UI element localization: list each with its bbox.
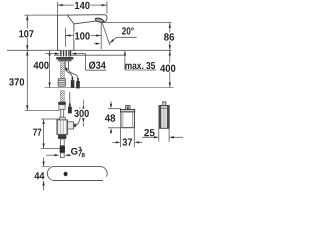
- dimension 44: [43, 158, 45, 167]
- box2 body: [159, 106, 169, 129]
- dimension 370: [26, 50, 28, 110]
- valve cable: [76, 107, 80, 125]
- plug 2: [77, 78, 79, 81]
- tailpiece pipe: [60, 139, 64, 146]
- box1 body: [121, 112, 134, 128]
- valve adapter body: [59, 105, 65, 110]
- cable gland: [74, 124, 77, 127]
- deck bottom line: [54, 54, 125, 56]
- extension line hose end: [45, 87, 175, 89]
- dimension 107: [24, 15, 57, 50]
- plug 1: [72, 77, 74, 80]
- valve body: [57, 120, 68, 134]
- dimension 400 left: [49, 50, 51, 87]
- valve cable plug: [69, 92, 71, 103]
- box2 knob: [163, 102, 166, 106]
- valve stem: [61, 109, 64, 117]
- flex hose upper: [61, 61, 65, 78]
- dia34 label leader: [85, 54, 87, 71]
- valve side port: [68, 122, 74, 129]
- box1 knob: [126, 106, 130, 110]
- dimension 77: [41, 119, 60, 148]
- tailpiece thread: [60, 146, 65, 153]
- shank through deck: [60, 50, 71, 56]
- dimension 300: [82, 100, 84, 104]
- tailpiece tip: [60, 153, 64, 158]
- G 3/8 label: [46, 154, 54, 156]
- faucet body side view: [58, 15, 108, 51]
- dimension 140: [58, 2, 107, 16]
- valve adapter collar: [58, 102, 66, 105]
- faucet top view stadium: [47, 166, 107, 180]
- dimension 100: [65, 23, 101, 49]
- deck top line: [7, 49, 171, 51]
- dimension dia34 arrows: [45, 53, 55, 55]
- sensor window diagonal: [67, 15, 74, 24]
- dimension 25: [142, 129, 183, 142]
- water stream line 20deg: [102, 23, 110, 46]
- aerator tip oval: [95, 17, 104, 23]
- sensor dot: [64, 172, 68, 176]
- sensor cable 2: [69, 61, 78, 78]
- dimension 86: [103, 23, 172, 50]
- mounting plate: [56, 57, 73, 60]
- valve: hose lower: [61, 91, 65, 102]
- max 35 label: [124, 51, 126, 70]
- dimension 400 right: [169, 50, 171, 87]
- dimension 20 deg leader: [94, 37, 136, 43]
- mounting nut: [58, 60, 71, 62]
- valve lower nut: [58, 134, 66, 139]
- dimension 37: [112, 128, 142, 147]
- sensor cable 1: [65, 61, 72, 77]
- valve collar2: [60, 117, 66, 120]
- dimension 48: [108, 101, 121, 134]
- box1 cap: [121, 109, 135, 112]
- hose end fitting: [58, 79, 65, 86]
